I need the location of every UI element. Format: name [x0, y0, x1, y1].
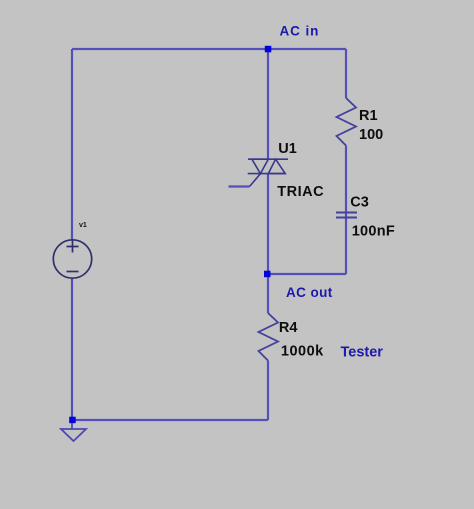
resistor R4: [259, 313, 279, 361]
capacitor C3: [336, 213, 357, 218]
label C3: [350, 195, 369, 211]
svg-text:AC out: AC out: [286, 285, 333, 300]
junction AC out node: [264, 271, 271, 278]
wire right vertical below R1 through C3: [345, 146, 347, 275]
junction ground node: [69, 417, 76, 424]
svg-text:v1: v1: [79, 222, 87, 229]
voltage source V1: [53, 240, 91, 278]
label V1: [79, 222, 87, 229]
label R4: [279, 320, 298, 336]
value 100nF: [352, 223, 395, 239]
resistor R1: [337, 98, 357, 146]
net label AC in: [280, 23, 320, 38]
svg-text:100nF: 100nF: [352, 223, 395, 239]
svg-text:Tester: Tester: [341, 345, 384, 361]
label R1: [359, 108, 378, 124]
svg-text:C3: C3: [350, 195, 369, 211]
ground: [61, 423, 86, 441]
junction AC in node: [265, 46, 272, 53]
triac U1: [248, 159, 288, 186]
value 100: [359, 127, 383, 143]
svg-text:AC in: AC in: [280, 23, 320, 38]
svg-text:R1: R1: [359, 108, 378, 124]
wire gate stub of U1: [229, 185, 250, 187]
value TRIAC: [277, 184, 324, 200]
wire middle vertical above U1: [267, 49, 269, 159]
wire right vertical above R1: [345, 49, 347, 98]
wire AC out horizontal: [268, 273, 346, 275]
svg-text:R4: R4: [279, 320, 298, 336]
wire middle vertical below U1 to R4: [267, 174, 269, 314]
net label Tester: [341, 345, 384, 361]
wire bottom horizontal: [72, 419, 268, 421]
svg-text:U1: U1: [278, 141, 297, 157]
svg-text:100: 100: [359, 127, 383, 143]
svg-text:TRIAC: TRIAC: [277, 184, 324, 200]
svg-text:1000k: 1000k: [281, 343, 324, 359]
label U1: [278, 141, 297, 157]
wire top horizontal (AC in net): [72, 48, 346, 50]
wire left vertical lower (source bottom): [71, 278, 73, 420]
wire middle vertical below R4: [267, 361, 269, 421]
wire left vertical upper (source top): [71, 49, 73, 240]
net label AC out: [286, 285, 333, 300]
value 1000k: [281, 343, 324, 359]
